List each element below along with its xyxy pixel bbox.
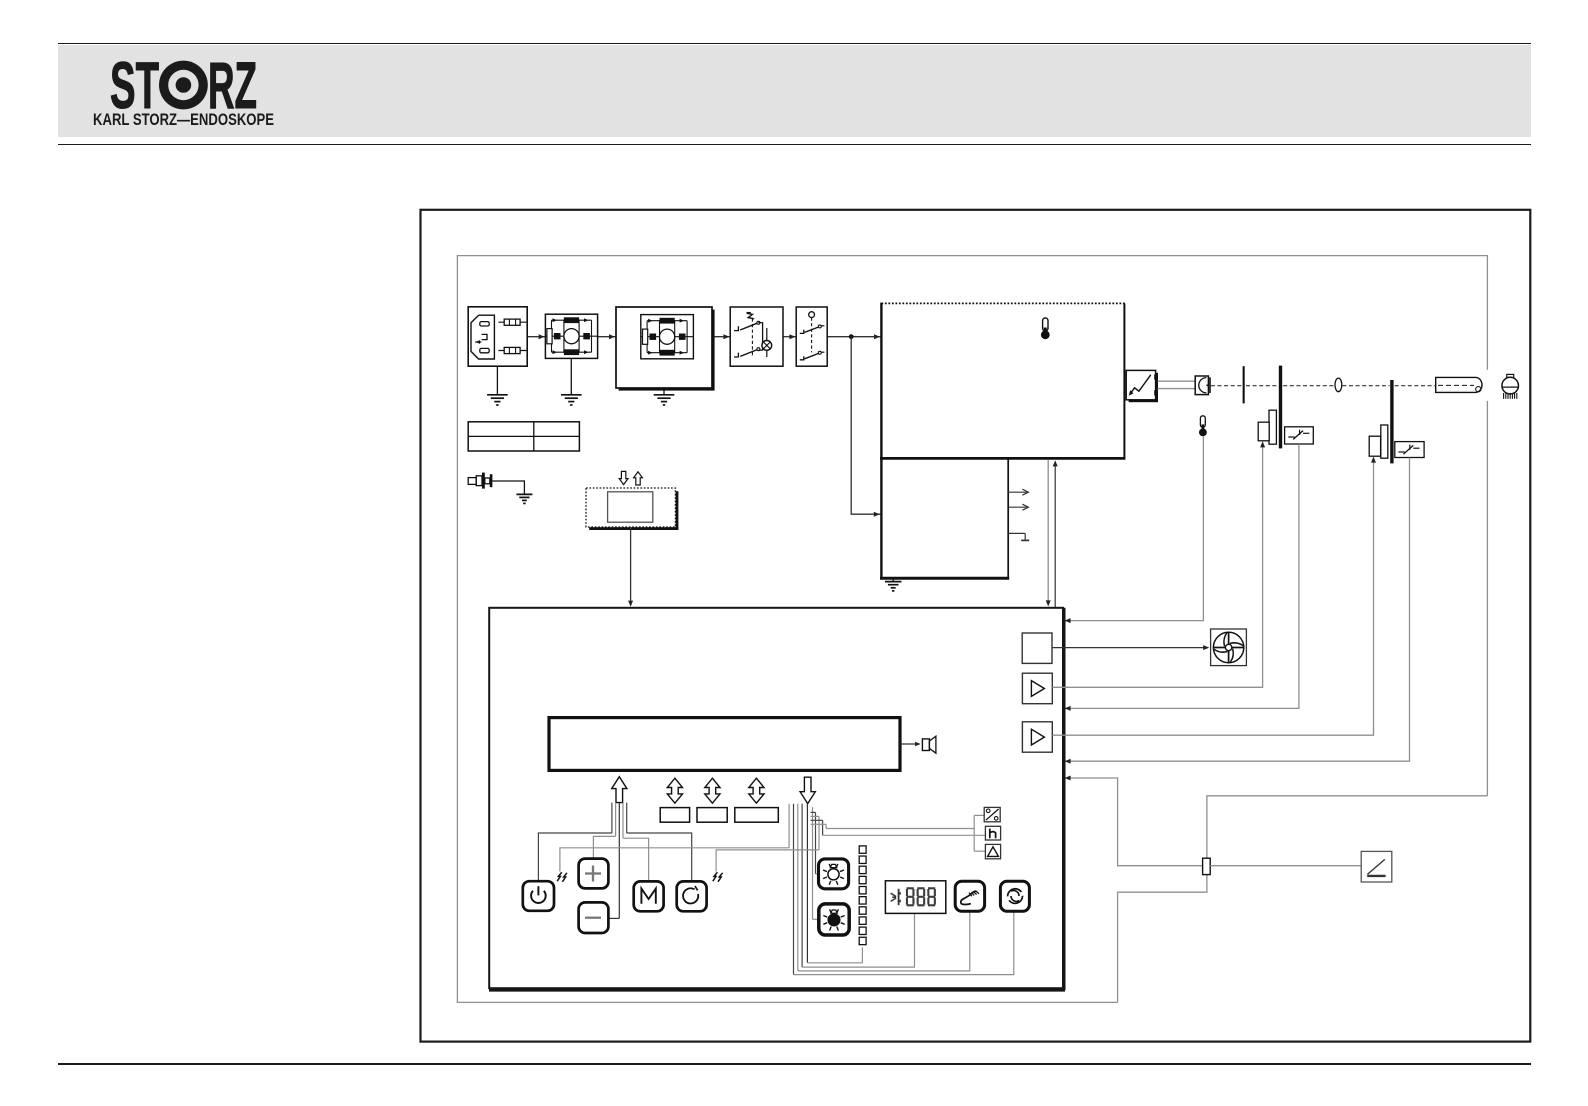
svg-text:KARL STORZ—ENDOSKOPE: KARL STORZ—ENDOSKOPE — [93, 110, 274, 129]
